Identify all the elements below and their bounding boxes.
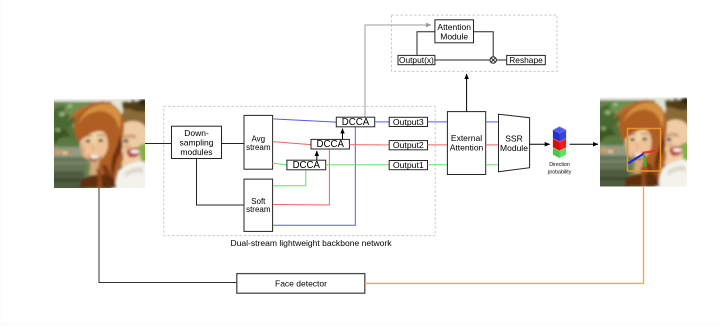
svg-text:Output1: Output1 [393, 160, 424, 170]
pose axis green [644, 154, 646, 166]
svg-text:Module: Module [500, 143, 528, 153]
blue cube [553, 127, 566, 134]
wire green: Output1 to external attention [428, 164, 448, 166]
wire: left photo down to face detector [99, 188, 237, 283]
wire blue: avg to DCCA3 [273, 119, 337, 122]
wire red: Output2 to external attention [428, 144, 448, 146]
wire green: DCCA1 to Output1 [326, 164, 390, 166]
svg-text:SSR: SSR [505, 134, 522, 144]
box avg stream [244, 115, 273, 169]
wire red: DCCA2 to Output2 [349, 144, 389, 146]
wire green: soft to DCCA1 [273, 170, 306, 186]
multiplier node [490, 57, 496, 63]
wire blue: DCCA3 to Output3 [375, 121, 390, 123]
svg-text:sampling: sampling [179, 138, 213, 148]
svg-text:DCCA: DCCA [293, 160, 321, 171]
face bounding box (orange) [628, 129, 661, 172]
svg-text:DCCA: DCCA [316, 139, 344, 150]
svg-text:stream: stream [246, 205, 271, 214]
box Output2 [389, 140, 427, 150]
green cube [553, 148, 560, 158]
svg-text:Face detector: Face detector [275, 279, 327, 289]
box Output3 [389, 117, 427, 127]
wire blue: soft to DCCA3 [273, 127, 355, 225]
svg-text:Module: Module [440, 31, 468, 41]
svg-text:Output(x): Output(x) [399, 55, 434, 65]
right output photo [595, 95, 692, 190]
svg-text:External: External [451, 133, 482, 143]
probability cubes [553, 127, 566, 158]
box Output1 [389, 160, 427, 170]
backbone dashed container [164, 106, 436, 235]
wire: output(x) to multiplier [435, 59, 490, 61]
wire: output(x) up to attention module [417, 32, 435, 56]
box soft stream [244, 179, 273, 231]
wire green: EA to SSR [486, 164, 499, 166]
faint page edge band [0, 322, 720, 326]
wire orange: face detector to output photo [365, 187, 644, 283]
svg-text:Attention: Attention [450, 143, 484, 153]
wire: photo to down-sampling [145, 143, 172, 145]
svg-text:probability: probability [548, 170, 572, 176]
box attention module [435, 20, 474, 43]
wire: down-sampling to soft stream [197, 159, 245, 206]
wire: multiplier to reshape [496, 59, 506, 61]
svg-text:stream: stream [246, 143, 271, 152]
wire: attention module right down to multiplier [474, 32, 494, 57]
pose axis red [642, 151, 658, 154]
arrow: SSR to probability cubes [530, 143, 550, 145]
wire green: avg to DCCA1 [273, 163, 287, 165]
svg-text:Dual-stream lightweight backbo: Dual-stream lightweight backbone network [230, 238, 392, 248]
svg-text:Down-: Down- [184, 128, 209, 138]
box reshape [507, 55, 546, 65]
arrow DCCA1 to DCCA2 [316, 151, 318, 160]
red cube [553, 138, 560, 151]
box face detector [237, 274, 365, 294]
wire: down-sampling to avg stream [222, 143, 245, 145]
wire red: avg to DCCA2 [273, 142, 311, 145]
box DCCA1 (bottom) [287, 160, 326, 171]
svg-text:Output3: Output3 [393, 117, 424, 127]
wire red: soft to DCCA2 [273, 149, 329, 205]
wire gray: DCCA3 to attention module [365, 25, 431, 117]
arrow: cubes to output photo [570, 143, 599, 145]
svg-text:Output2: Output2 [393, 140, 424, 150]
box down-sampling modules [172, 126, 222, 158]
arrow DCCA2 to DCCA3 [342, 129, 344, 140]
svg-text:Reshape: Reshape [509, 55, 543, 65]
wire blue: EA to SSR [486, 121, 499, 123]
svg-text:Attention: Attention [437, 22, 471, 32]
trapezoid SSR module [499, 114, 530, 172]
wire red: EA to SSR [486, 144, 499, 146]
wire blue: Output3 to external attention [428, 121, 448, 123]
svg-text:Direction: Direction [549, 162, 570, 168]
arrow: external attention up to attention block [466, 74, 468, 112]
box output(x) [398, 55, 435, 65]
box external attention [447, 112, 485, 175]
box DCCA2 (middle) [311, 139, 349, 150]
left input photo [49, 96, 150, 191]
box DCCA3 (top) [336, 117, 374, 128]
svg-text:DCCA: DCCA [342, 117, 370, 128]
pose axis blue [628, 154, 644, 164]
attention dashed container [392, 15, 558, 71]
svg-text:modules: modules [180, 147, 212, 157]
